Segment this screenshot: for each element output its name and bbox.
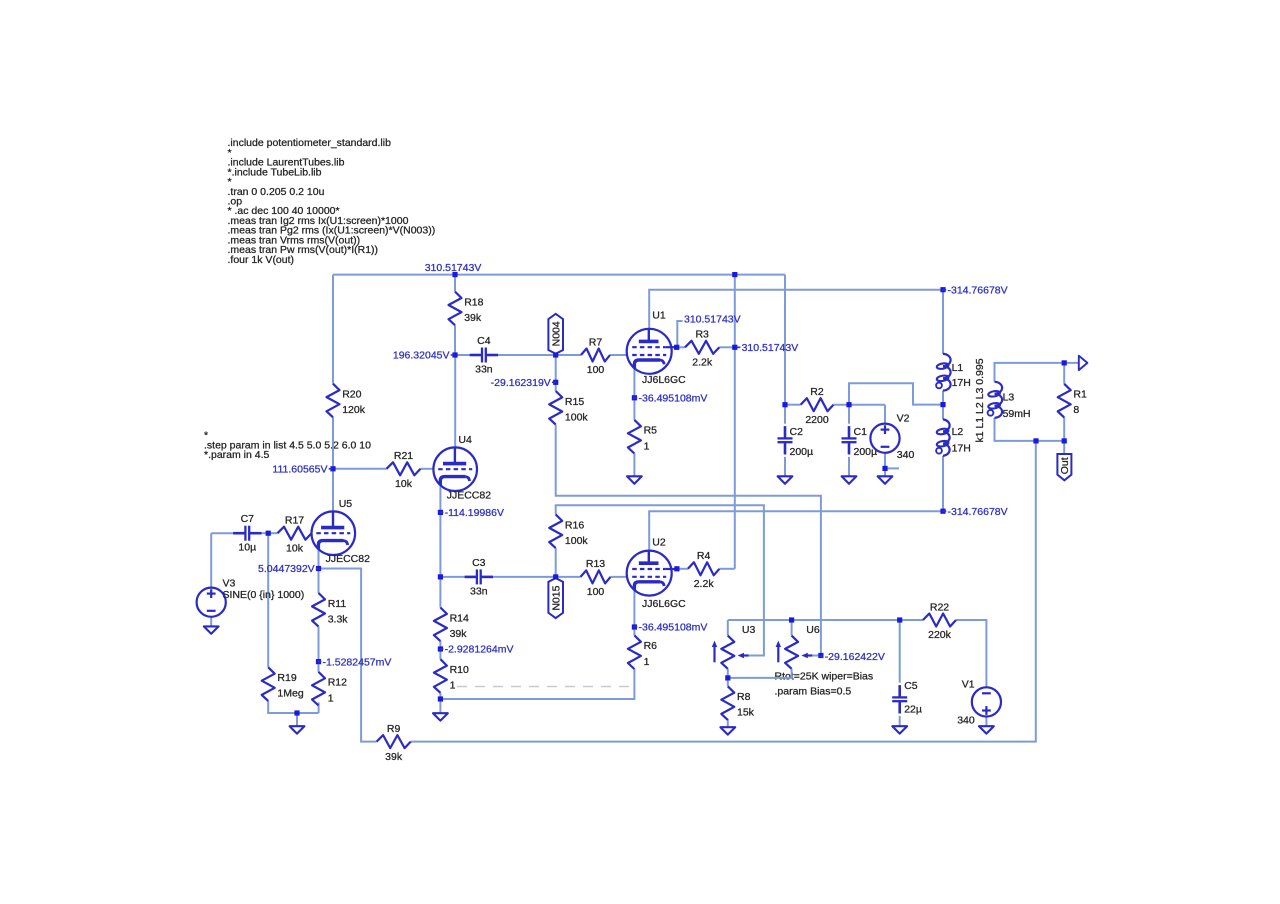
svg-text:-2.9281264mV: -2.9281264mV <box>445 644 514 656</box>
wire U2 cathode to R6 <box>633 590 635 635</box>
resistor R6 <box>628 635 657 669</box>
svg-text:33n: 33n <box>470 585 488 597</box>
wire node to ground <box>439 699 441 713</box>
svg-text:39k: 39k <box>464 312 482 324</box>
junction L1 top <box>940 287 945 292</box>
wire supply to transformer mid <box>849 383 943 404</box>
ground below V1 <box>979 726 994 733</box>
svg-text:200µ: 200µ <box>790 446 814 458</box>
svg-text:V3: V3 <box>223 578 236 590</box>
output probe arrow <box>1079 356 1088 370</box>
svg-text:L2: L2 <box>952 426 964 438</box>
wire R1 to out node <box>1063 417 1065 441</box>
wire V3 to C7 <box>211 532 233 534</box>
triode U4 (JJECC82) <box>433 434 491 502</box>
net label N015 <box>548 578 563 618</box>
capacitor C7 <box>233 513 261 554</box>
svg-text:2.2k: 2.2k <box>694 578 715 590</box>
svg-text:33n: 33n <box>475 364 493 376</box>
node voltage label 310.51743V <box>737 342 799 354</box>
junction C4 node <box>452 352 457 357</box>
resistor R7 <box>581 336 610 376</box>
wire C2 to ground <box>784 457 786 476</box>
wire L1-L2 midpoint <box>942 391 944 420</box>
resistor R9 <box>377 723 411 763</box>
node voltage label -29.162422V <box>820 651 885 663</box>
ground below R5 <box>627 476 642 483</box>
wire node to C3 <box>440 576 464 578</box>
junction N015 <box>553 574 558 579</box>
svg-text:Out: Out <box>1059 457 1071 474</box>
svg-text:310.51743V: 310.51743V <box>684 314 741 326</box>
svg-text:100: 100 <box>587 586 605 598</box>
svg-text:C7: C7 <box>241 513 255 525</box>
wire V3 minus to ground <box>210 617 212 627</box>
wire U1 cathode to R5 <box>633 368 635 420</box>
wire U1 plate to L1 node <box>649 290 943 329</box>
wire R12 to ground node <box>318 702 320 713</box>
wire R4 to supply <box>719 568 734 570</box>
wire C5 to ground <box>899 716 901 726</box>
potentiometer U6 <box>776 624 820 669</box>
resistor R4 <box>688 550 720 590</box>
wire R7 to U1 grid <box>610 354 627 356</box>
wire to V2 plus <box>884 405 886 424</box>
svg-text:2200: 2200 <box>805 414 829 426</box>
resistor R5 <box>628 420 657 454</box>
svg-text:-36.495108mV: -36.495108mV <box>639 622 708 634</box>
wire node to ground <box>296 713 298 726</box>
svg-text:C3: C3 <box>472 557 486 569</box>
svg-text:.include potentiometer_standar: .include potentiometer_standard.lib <box>228 137 392 149</box>
svg-text:100: 100 <box>587 364 605 376</box>
svg-text:22µ: 22µ <box>904 704 922 716</box>
svg-text:340: 340 <box>957 715 975 727</box>
wire R11 to R12 <box>318 627 320 672</box>
resistor R21 <box>387 450 421 490</box>
svg-text:8: 8 <box>1073 404 1079 416</box>
wire R15 to U6 wiper <box>556 425 821 656</box>
resistor R18 <box>449 292 484 326</box>
wire R16 to U3 wiper <box>556 505 764 655</box>
svg-text:1: 1 <box>644 440 650 452</box>
wire node to Out flag <box>1063 441 1065 454</box>
wire node to R17 <box>268 532 277 534</box>
resistor R12 <box>312 672 347 706</box>
wire R18 to C4 node <box>454 325 456 355</box>
svg-text:U5: U5 <box>339 498 353 510</box>
svg-text:.four 1k V(out): .four 1k V(out) <box>228 254 295 266</box>
wire node to U4 plate <box>454 355 456 448</box>
wire screen supply vertical <box>734 275 736 569</box>
capacitor C2 <box>778 426 814 458</box>
resistor R17 <box>278 515 312 555</box>
junction C5 top <box>897 617 902 622</box>
wire node to R2 <box>785 404 801 406</box>
svg-text:R6: R6 <box>644 640 658 652</box>
wire R21 to U4 grid <box>421 468 434 470</box>
node voltage label -36.495108mV <box>634 622 708 634</box>
svg-text:L1: L1 <box>952 362 964 374</box>
wire L2 to node <box>942 456 944 511</box>
junction U3 R8 <box>725 675 730 680</box>
svg-text:39k: 39k <box>385 751 403 763</box>
svg-text:R19: R19 <box>277 672 296 684</box>
wire V2 ground stub <box>885 467 899 469</box>
wire R13 to U2 grid <box>611 576 627 578</box>
svg-text:R11: R11 <box>328 598 347 610</box>
svg-text:C4: C4 <box>477 335 491 347</box>
ground below R12 R19 <box>290 726 305 733</box>
wire R6 to R10 node <box>440 669 634 699</box>
wire C3 to N015 node <box>493 576 556 578</box>
junction U6 bias <box>789 617 794 622</box>
junction rail R18 <box>452 272 457 277</box>
junction C3 R14 <box>438 574 443 579</box>
svg-text:k1 L1 L2 L3 0.995: k1 L1 L2 L3 0.995 <box>974 358 986 442</box>
svg-text:310.51743V: 310.51743V <box>742 342 799 354</box>
potentiometer U3 <box>712 624 756 669</box>
junction R14 R10 probe <box>438 646 443 651</box>
resistor R8 <box>721 686 754 720</box>
svg-text:N015: N015 <box>550 585 562 610</box>
svg-text:R7: R7 <box>589 336 603 348</box>
node voltage label 310.51743V <box>684 314 741 326</box>
wire C1 to ground <box>848 457 850 476</box>
svg-text:R18: R18 <box>464 296 483 308</box>
svg-text:L3: L3 <box>1003 391 1015 403</box>
svg-text:JJECC82: JJECC82 <box>326 553 371 565</box>
svg-text:R4: R4 <box>697 550 711 562</box>
wire R22 to V1 <box>956 620 986 687</box>
ground below V3 <box>204 626 219 633</box>
wire rail to R2 node <box>784 275 786 405</box>
net label N004 <box>548 314 563 354</box>
svg-text:3.3k: 3.3k <box>328 613 349 625</box>
capacitor C4 <box>470 335 498 376</box>
node voltage label -314.76678V <box>943 284 1008 296</box>
svg-text:R21: R21 <box>394 450 413 462</box>
svg-text:R1: R1 <box>1073 389 1087 401</box>
junction U1 screen <box>674 345 679 350</box>
svg-text:-29.162319V: -29.162319V <box>491 377 551 389</box>
ground below C5 <box>892 726 907 733</box>
junction U2 cathode <box>632 624 637 629</box>
wire L3 to out node <box>995 418 1065 441</box>
svg-text:U3: U3 <box>742 624 756 636</box>
junction C1 top <box>846 402 851 407</box>
svg-text:.param Bias=0.5: .param Bias=0.5 <box>775 686 852 698</box>
inductor L3 <box>988 382 1031 420</box>
junction output return <box>1033 438 1038 443</box>
junction R19 R12 ground <box>294 710 299 715</box>
wire U4 cathode to C3 node <box>439 486 441 577</box>
wire R5 to ground <box>633 454 635 477</box>
pentode U2 (JJ6L6GC) <box>627 536 686 610</box>
wire node to R21 <box>333 468 387 470</box>
spice directives text block <box>228 137 436 266</box>
node voltage label 5.0447392V <box>258 563 320 575</box>
svg-text:15k: 15k <box>737 707 755 719</box>
svg-text:R9: R9 <box>387 723 401 735</box>
svg-text:SINE(0 {in} 1000): SINE(0 {in} 1000) <box>223 589 305 601</box>
svg-text:*.include TubeLib.lib: *.include TubeLib.lib <box>228 166 322 178</box>
resistor R16 <box>549 515 588 549</box>
wire U2 plate to L2 node <box>649 511 943 550</box>
wire node to L1 <box>942 290 944 354</box>
wire node to R1 <box>1063 363 1065 384</box>
svg-text:-114.19986V: -114.19986V <box>445 507 504 519</box>
svg-text:R13: R13 <box>586 558 605 570</box>
svg-text:R3: R3 <box>695 329 709 341</box>
svg-text:120k: 120k <box>342 404 366 416</box>
svg-text:R5: R5 <box>644 425 658 437</box>
wire N004 node to R15 <box>555 355 557 391</box>
resistor R19 <box>262 667 304 701</box>
junction U2 screen <box>674 566 679 571</box>
svg-text:*.param in 4.5: *.param in 4.5 <box>204 449 270 461</box>
svg-text:-1.5282457mV: -1.5282457mV <box>323 656 392 668</box>
svg-text:U4: U4 <box>458 434 472 446</box>
junction U1 cathode <box>632 395 637 400</box>
node voltage label 111.60565V <box>272 464 332 476</box>
wire node to R19 <box>267 533 269 667</box>
svg-text:R12: R12 <box>328 677 347 689</box>
svg-text:R15: R15 <box>565 396 584 408</box>
wire node to C4 <box>455 354 470 356</box>
node voltage label 310.51743V <box>425 262 482 274</box>
wire R3 to supply <box>719 346 734 348</box>
svg-text:196.32045V: 196.32045V <box>393 350 450 362</box>
svg-text:-29.162422V: -29.162422V <box>825 651 885 663</box>
step param text block <box>204 430 371 461</box>
wire node to C2 <box>784 405 786 424</box>
svg-text:C5: C5 <box>904 680 918 692</box>
svg-text:59mH: 59mH <box>1003 408 1031 420</box>
svg-text:310.51743V: 310.51743V <box>425 262 482 274</box>
junction R20 R21 <box>330 466 335 471</box>
svg-text:2.2k: 2.2k <box>692 357 713 369</box>
wire voltage label leader <box>677 321 682 346</box>
wire node to R14 <box>439 577 441 608</box>
resistor R15 <box>549 391 588 425</box>
svg-text:V1: V1 <box>962 679 975 691</box>
wire N015 node to R13 <box>556 576 581 578</box>
svg-text:JJ6L6GC: JJ6L6GC <box>642 598 686 610</box>
junction R1 top output <box>1062 360 1067 365</box>
svg-text:JJECC82: JJECC82 <box>447 490 492 502</box>
capacitor C5 <box>892 680 922 716</box>
junction C7 R17 R19 <box>266 531 271 536</box>
voltage source V3 <box>197 578 305 617</box>
wire rail to R18 <box>454 275 456 292</box>
resistor R14 <box>434 608 469 642</box>
junction R11 R12 probe <box>316 659 321 664</box>
svg-text:N004: N004 <box>550 321 562 346</box>
svg-text:1: 1 <box>644 656 650 668</box>
resistor R11 <box>312 593 348 627</box>
svg-text:JJ6L6GC: JJ6L6GC <box>642 374 686 386</box>
wire feedback to R9 <box>319 569 377 742</box>
svg-text:220k: 220k <box>928 629 952 641</box>
capacitor C3 <box>465 557 493 598</box>
node voltage label -29.162319V <box>491 377 556 389</box>
svg-text:U2: U2 <box>652 536 666 548</box>
svg-text:R14: R14 <box>450 612 469 624</box>
svg-text:R22: R22 <box>930 601 949 613</box>
wire bias to U6 <box>791 620 793 636</box>
junction U4 cathode probe <box>438 510 443 515</box>
wire to V3 plus <box>210 533 212 588</box>
wire V2 minus to ground <box>884 453 886 477</box>
svg-text:R16: R16 <box>565 519 584 531</box>
junction N004 <box>553 352 558 357</box>
junction rail screen feed <box>732 272 737 277</box>
svg-text:C2: C2 <box>790 426 804 438</box>
svg-text:-314.76678V: -314.76678V <box>948 506 1008 518</box>
wire node to C1 <box>848 405 850 424</box>
svg-text:5.0447392V: 5.0447392V <box>258 563 315 575</box>
inductor L1 <box>936 354 971 391</box>
svg-text:-314.76678V: -314.76678V <box>948 284 1008 296</box>
wire rail to R20 <box>332 275 334 384</box>
node voltage label -36.495108mV <box>634 393 708 405</box>
ground below C2 <box>778 476 793 483</box>
voltage source V1 <box>957 679 1001 727</box>
svg-text:100k: 100k <box>565 535 589 547</box>
node voltage label -2.9281264mV <box>440 644 514 656</box>
svg-text:39k: 39k <box>450 628 468 640</box>
junction R15 top probe <box>553 380 558 385</box>
svg-text:340: 340 <box>897 449 915 461</box>
resistor R10 <box>434 659 469 693</box>
resistor R1 <box>1058 384 1087 418</box>
wire node to C5 <box>899 620 901 683</box>
svg-text:1Meg: 1Meg <box>277 688 303 700</box>
junction U5 cathode <box>316 566 321 571</box>
wire R9 to output return <box>411 441 1036 742</box>
svg-text:R2: R2 <box>810 386 824 398</box>
resistor R13 <box>581 558 611 598</box>
ground below C1 <box>842 476 857 483</box>
svg-text:C1: C1 <box>854 426 868 438</box>
Rtot wiper annotation text <box>775 671 874 698</box>
capacitor C1 <box>842 426 878 458</box>
wire R10 to node <box>439 693 441 699</box>
wire C4 to N004 node <box>498 354 556 356</box>
wire V1 to ground <box>985 717 987 727</box>
resistor R2 <box>801 386 834 426</box>
svg-text:R17: R17 <box>285 515 304 527</box>
wire R20 to U5 plate via node <box>332 417 334 511</box>
junction U6 wiper probe <box>818 653 823 658</box>
node voltage label -1.5282457mV <box>318 656 392 668</box>
node voltage label 196.32045V <box>393 350 455 362</box>
wire U2 screen to R4 <box>677 568 688 570</box>
svg-text:111.60565V: 111.60565V <box>272 464 327 476</box>
svg-text:-36.495108mV: -36.495108mV <box>639 393 708 405</box>
pentode U1 (JJ6L6GC) <box>627 309 686 386</box>
svg-text:U1: U1 <box>652 309 666 321</box>
junction L2 bottom <box>940 509 945 514</box>
wire R2 to V2 <box>833 404 885 406</box>
svg-text:10k: 10k <box>286 542 304 554</box>
ground below R10 <box>433 713 448 720</box>
svg-text:V2: V2 <box>897 412 910 424</box>
svg-text:Rtot=25K wiper=Bias: Rtot=25K wiper=Bias <box>775 671 874 683</box>
node voltage label -114.19986V <box>440 507 504 519</box>
svg-text:R10: R10 <box>450 664 469 676</box>
output port flag Out <box>1057 454 1071 480</box>
wire bias line <box>728 619 923 621</box>
svg-text:100k: 100k <box>565 411 589 423</box>
ground below R8 <box>720 727 735 734</box>
svg-text:17H: 17H <box>952 443 971 455</box>
wire R19 to ground node <box>268 701 318 713</box>
resistor R20 <box>327 384 366 418</box>
wire N004 node to R7 <box>556 354 581 356</box>
junction R10 ground <box>438 696 443 701</box>
node voltage label -314.76678V <box>943 506 1008 518</box>
wire R8 to ground <box>727 719 729 727</box>
svg-text:R20: R20 <box>342 389 361 401</box>
svg-text:10µ: 10µ <box>238 542 256 554</box>
wire bias to U3 <box>727 620 729 636</box>
triode U5 (JJECC82) <box>312 498 371 565</box>
faint dashed artifact line <box>457 686 632 688</box>
wire R14 to R10 <box>439 641 441 659</box>
junction V2 minus <box>882 466 887 471</box>
svg-text:17H: 17H <box>952 377 971 389</box>
junction R1 bottom Out <box>1062 438 1067 443</box>
svg-text:1: 1 <box>328 692 334 704</box>
wire C7 to node <box>261 532 268 534</box>
resistor R22 <box>923 601 956 641</box>
voltage source V2 <box>870 412 914 461</box>
junction C2 top <box>782 402 787 407</box>
wire 310V top rail <box>333 274 785 276</box>
junction R3 supply <box>732 345 737 350</box>
ground below V2 <box>878 476 893 483</box>
wire U6 bottom tie <box>728 669 792 678</box>
svg-text:U6: U6 <box>806 624 820 636</box>
wire U3 to R8 node <box>727 669 729 686</box>
svg-text:1: 1 <box>450 680 456 692</box>
inductor L2 <box>936 419 971 455</box>
junction L1 L2 mid <box>940 402 945 407</box>
svg-text:R8: R8 <box>737 691 751 703</box>
resistor R3 <box>685 329 719 369</box>
wire U1 screen to R3 <box>677 346 685 348</box>
wire R16 to N015 node <box>555 548 557 577</box>
wire L3 to output node <box>995 363 1079 382</box>
svg-text:10k: 10k <box>395 478 413 490</box>
wire U5 cathode to R11 <box>318 550 320 593</box>
